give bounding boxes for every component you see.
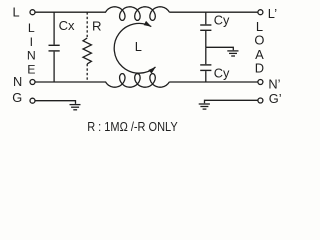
resistor R (dashed leads, optional): [83, 12, 91, 82]
wire L rail right: [169, 11, 258, 13]
inductor winding (bottom): [106, 74, 170, 88]
terminal L': [258, 10, 263, 15]
svg-text:O: O: [254, 33, 264, 48]
svg-text:N: N: [27, 49, 36, 63]
arrowhead bottom: [148, 67, 155, 74]
svg-text:I: I: [30, 35, 33, 49]
label LOAD vertical: [254, 19, 264, 76]
svg-text:G: G: [12, 90, 22, 105]
terminal G': [258, 98, 263, 103]
inductor winding (top): [106, 7, 170, 21]
terminal N': [258, 80, 263, 85]
ground (Cy midpoint): [227, 51, 238, 56]
svg-text:L: L: [13, 4, 20, 19]
capacitor Cy (bottom): [200, 47, 211, 82]
svg-text:E: E: [27, 63, 35, 77]
svg-text:Cy: Cy: [214, 66, 230, 81]
wire Cy midpoint to ground: [206, 47, 234, 50]
terminal N: [30, 80, 35, 85]
svg-text:L: L: [135, 39, 142, 54]
terminal G: [30, 98, 35, 103]
svg-text:L: L: [28, 21, 35, 35]
svg-text:R : 1MΩ /-R ONLY: R : 1MΩ /-R ONLY: [87, 120, 178, 134]
svg-text:R: R: [92, 19, 102, 34]
svg-text:N’: N’: [268, 76, 280, 91]
wire G' to ground: [205, 100, 258, 103]
capacitor Cy (top): [200, 12, 211, 47]
svg-text:G’: G’: [269, 91, 282, 106]
wire N rail left: [35, 81, 106, 83]
svg-text:Cx: Cx: [59, 18, 75, 33]
svg-text:L’: L’: [268, 6, 277, 21]
core circle arrow of choke L: [114, 23, 155, 73]
wire G to ground: [35, 101, 75, 104]
ground (load side): [199, 104, 210, 109]
wire L rail left: [35, 11, 106, 13]
svg-text:N: N: [13, 74, 22, 89]
wire N rail right: [169, 81, 258, 83]
terminal L: [30, 10, 35, 15]
svg-text:Cy: Cy: [214, 13, 230, 28]
ground (left, protective earth): [70, 105, 81, 110]
capacitor Cx: [49, 12, 60, 82]
arrowhead top: [144, 21, 152, 27]
label LINE vertical: [27, 21, 36, 77]
svg-text:D: D: [255, 60, 264, 75]
